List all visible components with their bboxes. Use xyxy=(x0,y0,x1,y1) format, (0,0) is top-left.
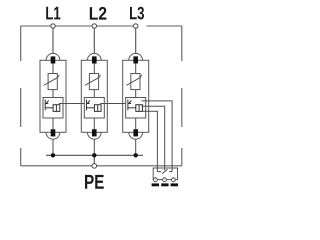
enclosure top border (segment 2 after gap) xyxy=(146,25,181,27)
module 2 bottom plug-in arc xyxy=(87,132,101,139)
terminal stub 14 xyxy=(172,177,174,179)
module 2 top plug-in arc xyxy=(87,53,101,60)
changeover contact symbol xyxy=(157,169,172,174)
enclosure top border (dashed, segment 1) xyxy=(21,25,138,27)
module 1 (L1 varistor SPD) xyxy=(40,29,66,158)
wire varistor to indicator box xyxy=(52,90,54,98)
signal wire 12 (bottom, to inner drop) xyxy=(142,111,158,171)
module 1 indicator box xyxy=(43,98,63,119)
label L2 xyxy=(90,7,107,20)
terminal circle L2 xyxy=(92,24,96,28)
module 3 outer box xyxy=(123,60,149,132)
terminal mark 11 xyxy=(152,183,159,186)
varistor RU1 xyxy=(48,74,57,90)
enclosure bottom border xyxy=(21,165,182,167)
wire module 3 to PE bus xyxy=(135,139,137,155)
signal wire 11 (middle drop) xyxy=(142,106,165,170)
module 2 top thermal disconnect plug xyxy=(92,56,97,63)
module 3 top thermal disconnect plug xyxy=(133,56,138,63)
module 3 bottom plug-in arc xyxy=(129,132,143,139)
terminal stub 12 xyxy=(164,177,166,179)
terminal circle L3 xyxy=(134,24,138,28)
wire plug to varistor xyxy=(52,64,54,74)
wire L2 terminal to module xyxy=(93,29,95,54)
terminal mark 14 xyxy=(171,183,178,186)
module 1 bottom thermal disconnect plug xyxy=(51,129,56,136)
remote signalling contact box xyxy=(153,168,177,180)
signal wire 14 (top, to outer drop) xyxy=(142,101,173,172)
module 2 indicator box xyxy=(84,98,104,119)
wire indicator box to bottom plug xyxy=(93,118,95,129)
junction dot module 2 / PE bus xyxy=(92,153,96,157)
wire PE stub xyxy=(93,155,95,163)
wire indicator box to bottom plug xyxy=(135,118,137,129)
enclosure left border (dashed) xyxy=(20,26,22,166)
module 3 disconnect-indicator symbol xyxy=(128,100,143,112)
module 2 bottom thermal disconnect plug xyxy=(92,129,97,136)
PE bus bar xyxy=(46,154,143,156)
wire varistor to indicator box xyxy=(135,90,137,98)
module 1 top plug-in arc xyxy=(46,53,60,60)
module 2 outer box xyxy=(81,60,107,132)
wire L1 terminal to module xyxy=(52,29,54,54)
module 3 indicator box xyxy=(126,98,146,119)
module 1 bottom plug-in arc xyxy=(46,132,60,139)
terminal circle contact 12 xyxy=(163,178,167,182)
module 2 disconnect-indicator symbol xyxy=(87,100,102,112)
terminal circle PE xyxy=(92,164,97,169)
terminal mark 12 xyxy=(161,183,168,186)
module 1 outer box xyxy=(40,60,66,132)
terminal circle contact 11 xyxy=(154,178,158,182)
wire plug to varistor xyxy=(93,64,95,74)
wire L3 terminal to module xyxy=(135,29,137,54)
varistor RU3 xyxy=(131,74,140,90)
module 1 top thermal disconnect plug xyxy=(51,56,56,63)
module 3 (L3 varistor SPD) xyxy=(123,29,149,158)
signal link wire module2 to module3 xyxy=(100,103,126,105)
junction dot module 1 / PE bus xyxy=(51,153,55,157)
terminal circle contact 14 xyxy=(172,178,176,182)
terminal stub 11 xyxy=(154,177,156,179)
module 2 (L2 varistor SPD) xyxy=(81,29,107,158)
varistor RU2 xyxy=(89,74,98,90)
label L1 xyxy=(46,7,60,20)
label PE xyxy=(85,175,104,189)
label L3 xyxy=(130,7,144,20)
module 1 disconnect-indicator symbol xyxy=(45,100,60,112)
terminal circle L1 xyxy=(51,24,55,28)
wire module 1 to PE bus xyxy=(52,139,54,155)
wire varistor to indicator box xyxy=(93,90,95,98)
module 3 bottom thermal disconnect plug xyxy=(133,129,138,136)
signal link wire module1 to module2 xyxy=(59,103,85,105)
wire indicator box to bottom plug xyxy=(52,118,54,129)
wire module 2 to PE bus xyxy=(93,139,95,155)
enclosure right border (dashed) xyxy=(181,26,183,166)
wire plug to varistor xyxy=(135,64,137,74)
junction dot module 3 / PE bus xyxy=(134,153,138,157)
module 3 top plug-in arc xyxy=(129,53,143,60)
